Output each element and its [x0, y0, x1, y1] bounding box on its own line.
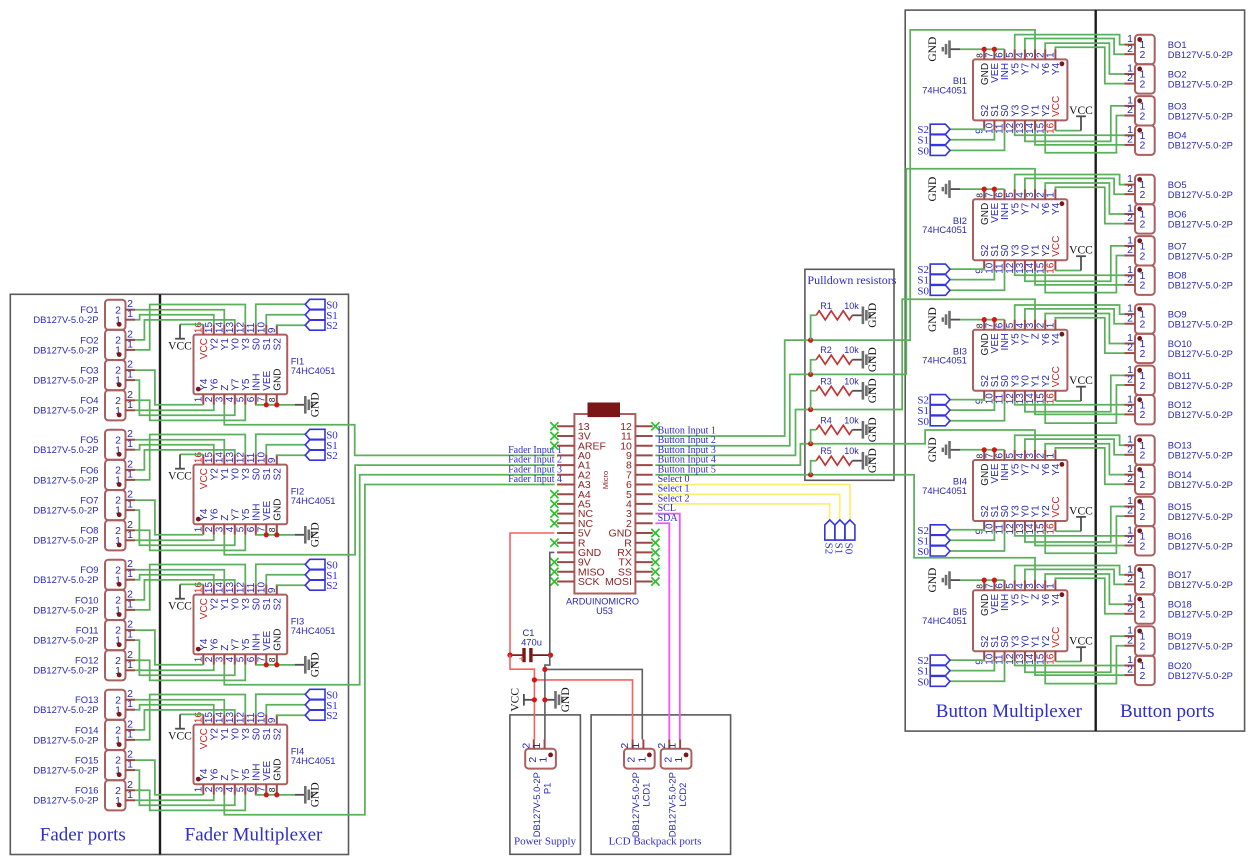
wire FI4 INH/VEE/GND to ground: [256, 794, 295, 796]
svg-text:DB127V-5.0-2P: DB127V-5.0-2P: [33, 505, 98, 516]
wire FI2 INH/VEE/GND to ground: [256, 534, 295, 536]
wire +5V C1 to P1 and VCC: [510, 655, 534, 739]
wire S2 to FI2: [277, 453, 305, 456]
svg-text:Y1: Y1: [220, 338, 231, 351]
ground R1: [852, 303, 879, 328]
svg-text:8: 8: [267, 397, 277, 402]
svg-text:5: 5: [236, 656, 247, 662]
wire BI5 Y7 to BO17.2: [1025, 569, 1124, 584]
svg-text:U53: U53: [596, 606, 613, 616]
no-connect U53 left NC row 9: [550, 510, 558, 518]
wire S2 to FI4: [277, 713, 305, 716]
ground R3: [852, 378, 879, 403]
wire FI1 Z to Fader Input 1: [224, 405, 554, 456]
svg-text:1: 1: [127, 338, 133, 350]
wire BI2 Y3 to BO8.1: [1015, 271, 1124, 276]
svg-text:1: 1: [194, 656, 205, 662]
svg-text:2: 2: [1127, 72, 1133, 84]
node S1 global label (BI2): [917, 275, 950, 287]
svg-text:5: 5: [236, 786, 247, 792]
wire FO8.2 to FI2 Y5: [135, 530, 245, 550]
svg-text:S1: S1: [262, 598, 273, 611]
wire FO1.2 to FI1 Y1: [135, 310, 224, 325]
svg-text:Y2: Y2: [209, 468, 220, 481]
svg-text:1: 1: [127, 728, 133, 740]
wire BI1 Y4 to BO2.2: [1055, 47, 1124, 83]
svg-text:2: 2: [1140, 579, 1146, 591]
svg-text:Y6: Y6: [209, 508, 220, 521]
svg-text:Button Multiplexer: Button Multiplexer: [936, 701, 1083, 722]
wire FO16.1 to FI4 Y6: [135, 795, 214, 801]
svg-text:GND: GND: [867, 417, 879, 442]
svg-text:Y0: Y0: [230, 728, 241, 741]
svg-text:GND: GND: [310, 522, 322, 547]
wire BI1 Y1 to BO4.2: [1035, 131, 1124, 145]
junction FI1 pin8: [274, 402, 279, 407]
svg-text:GND: GND: [272, 499, 283, 521]
node S0 global label (BI2): [917, 285, 950, 297]
svg-text:Z: Z: [220, 645, 231, 651]
wire FO5.2 to FI2 Y1: [135, 440, 224, 455]
wire FO5.1 to FI2 Y2: [135, 445, 214, 455]
svg-text:2: 2: [1127, 403, 1133, 415]
svg-text:VEE: VEE: [262, 760, 273, 780]
svg-text:DB127V-5.0-2P: DB127V-5.0-2P: [33, 704, 98, 715]
svg-text:2: 2: [1140, 511, 1146, 523]
svg-text:10k: 10k: [844, 415, 859, 425]
svg-text:DB127V-5.0-2P: DB127V-5.0-2P: [1168, 670, 1233, 681]
junction R2 / Button Input 2: [808, 372, 813, 377]
svg-text:GND: GND: [927, 437, 939, 462]
wire BI5 Y3 to BO20.1: [1015, 662, 1124, 666]
divider Fader boxes: [159, 294, 161, 854]
ground near P1: [545, 687, 572, 712]
svg-text:2: 2: [1127, 104, 1133, 116]
svg-text:6: 6: [246, 396, 257, 402]
svg-text:DB127V-5.0-2P: DB127V-5.0-2P: [33, 734, 98, 745]
svg-text:8: 8: [267, 527, 277, 532]
svg-text:VEE: VEE: [262, 630, 273, 650]
svg-text:GND: GND: [272, 369, 283, 391]
wire S2 to BI1: [950, 129, 984, 130]
svg-text:DB127V-5.0-2P: DB127V-5.0-2P: [667, 772, 678, 837]
wire S2 to BI3: [950, 400, 984, 401]
svg-text:2: 2: [1127, 312, 1133, 324]
svg-text:2: 2: [1140, 609, 1146, 621]
junction FI3 pin7: [264, 662, 269, 667]
svg-text:74HC4051: 74HC4051: [922, 84, 967, 95]
svg-text:VEE: VEE: [262, 370, 273, 390]
svg-text:9: 9: [267, 457, 278, 463]
svg-text:INH: INH: [251, 634, 262, 651]
svg-text:R4: R4: [820, 415, 832, 425]
wire BI1 Y5 to BO1.1: [1015, 35, 1124, 50]
svg-text:1: 1: [127, 308, 133, 320]
connector BO13: [1124, 434, 1233, 465]
junction FI4 pin7: [264, 792, 269, 797]
svg-text:1: 1: [127, 629, 133, 641]
wire R2 left lead: [811, 360, 817, 375]
wire BI4 Y0 to BO15.1: [1025, 507, 1124, 543]
wire Select 2: [655, 504, 829, 520]
wire FO9.2 to FI3 Y1: [135, 570, 224, 585]
svg-text:1: 1: [531, 743, 543, 749]
svg-text:4: 4: [225, 786, 236, 792]
svg-text:74HC4051: 74HC4051: [922, 615, 967, 626]
multiplexer BI1: [922, 49, 1067, 134]
svg-text:9: 9: [267, 587, 278, 593]
svg-text:Y1: Y1: [220, 598, 231, 611]
connector FO9: [33, 558, 135, 590]
svg-text:8: 8: [267, 657, 277, 662]
wire BI5 VCC pin16: [1055, 661, 1081, 663]
svg-text:S2: S2: [272, 598, 283, 611]
wire BI4 Y7 to BO13.2: [1025, 439, 1124, 455]
wire S1 to BI4: [950, 531, 994, 540]
wire Button Input 1 (U53 to R1 bus): [655, 340, 810, 436]
wire BI4 Y1 to BO16.2: [1035, 531, 1124, 545]
svg-text:7: 7: [257, 526, 268, 532]
svg-text:1: 1: [127, 698, 133, 710]
svg-text:S0: S0: [917, 416, 929, 428]
svg-text:16: 16: [1046, 653, 1057, 665]
junction +5V LCD1 branch: [532, 677, 537, 682]
svg-text:S1: S1: [262, 728, 273, 741]
node S0 global label (center): [843, 520, 855, 555]
wire Button Input 5 (U53 to R5 bus): [655, 474, 810, 476]
svg-text:2: 2: [1140, 189, 1146, 201]
svg-text:DB127V-5.0-2P: DB127V-5.0-2P: [1168, 348, 1233, 359]
svg-text:INH: INH: [251, 764, 262, 781]
wire BI3 Y5 to BO9.1: [1015, 305, 1124, 320]
wire FO11.1 to FI3 Y7: [135, 640, 235, 675]
wire S1 to BI1: [950, 131, 994, 140]
connector LCD1: [619, 740, 655, 838]
wire FO6.1 to FI2 Y3: [135, 435, 245, 480]
node S0 global label (BI4): [917, 546, 950, 558]
wire S2 to FI1: [277, 323, 305, 326]
junction R3 / Button Input 3: [808, 407, 813, 412]
wire BI3 Y1 to BO12.2: [1035, 401, 1124, 414]
svg-text:16: 16: [194, 712, 205, 724]
node S1 global label (BI1): [917, 135, 950, 147]
svg-text:2: 2: [1140, 250, 1146, 262]
connector FO1: [33, 298, 135, 330]
svg-text:Fader Input 4: Fader Input 4: [508, 474, 562, 485]
wire BI1 Y2 to BO3.2: [1045, 116, 1124, 153]
svg-text:DB127V-5.0-2P: DB127V-5.0-2P: [1168, 78, 1233, 89]
svg-text:Y6: Y6: [209, 638, 220, 651]
svg-text:GND: GND: [927, 568, 939, 593]
svg-text:VCC: VCC: [1069, 245, 1093, 257]
svg-text:S2: S2: [326, 320, 338, 332]
wire BI3 GND/VEE/INH to ground: [960, 319, 1004, 321]
ground BI5: [927, 568, 960, 593]
wire Button Input 4 (U53 to R4 bus): [655, 444, 810, 465]
svg-text:INH: INH: [251, 504, 262, 521]
svg-text:SDA: SDA: [658, 513, 679, 524]
wire BI5 Y1 to BO20.2: [1035, 662, 1124, 676]
svg-text:Y0: Y0: [230, 468, 241, 481]
svg-text:6: 6: [246, 526, 257, 532]
wire FO13.2 to FI4 Y1: [135, 700, 224, 715]
svg-text:DB127V-5.0-2P: DB127V-5.0-2P: [1168, 49, 1233, 60]
no-connect U53 left SCK row 16: [550, 577, 558, 585]
wire S2 to BI2: [950, 269, 984, 270]
node S1 global label (FI2): [305, 440, 338, 452]
junction BI1 pin7: [992, 47, 997, 52]
connector FO13: [33, 688, 135, 720]
node S2 global label (BI1): [917, 124, 950, 136]
svg-text:Fader ports: Fader ports: [40, 825, 126, 846]
svg-text:1: 1: [636, 757, 648, 763]
svg-text:S0: S0: [917, 676, 929, 688]
power VCC BI4: [1069, 505, 1093, 531]
no-connect U53 left A4 row 7: [550, 490, 558, 498]
svg-text:2: 2: [1127, 183, 1133, 195]
wire FO3.1 to FI1 Y7: [135, 380, 235, 415]
svg-text:DB127V-5.0-2P: DB127V-5.0-2P: [531, 772, 542, 837]
svg-text:S0: S0: [917, 285, 929, 297]
svg-text:GND: GND: [310, 392, 322, 417]
wire Select 0: [655, 485, 850, 520]
svg-text:DB127V-5.0-2P: DB127V-5.0-2P: [33, 405, 98, 416]
wire BI2 Y2 to BO7.2: [1045, 256, 1124, 293]
ground R4: [852, 417, 879, 442]
svg-text:GND: GND: [310, 782, 322, 807]
svg-text:10k: 10k: [844, 446, 859, 456]
svg-text:Y7: Y7: [230, 638, 241, 651]
connector BO19: [1124, 625, 1233, 656]
svg-text:470u: 470u: [521, 637, 542, 648]
connector BO14: [1124, 463, 1233, 494]
svg-text:VCC: VCC: [168, 600, 192, 612]
ground FI3: [295, 652, 322, 677]
svg-text:2: 2: [204, 786, 215, 792]
connector FO11: [33, 619, 135, 651]
node S0 global label (FI1): [305, 299, 338, 311]
wire BI3 Y7 to BO9.2: [1025, 309, 1124, 324]
no-connect U53 left 13 row 0: [550, 422, 558, 430]
svg-text:MOSI: MOSI: [605, 576, 632, 588]
svg-text:3: 3: [215, 396, 226, 402]
connector BO16: [1124, 524, 1233, 555]
svg-text:5: 5: [236, 526, 247, 532]
node S0 global label (BI5): [917, 676, 950, 688]
wire S0 to BI2: [950, 271, 1005, 291]
svg-text:Y2: Y2: [209, 728, 220, 741]
svg-text:9: 9: [267, 717, 278, 723]
connector BO5: [1124, 173, 1233, 204]
svg-text:2: 2: [1127, 573, 1133, 585]
wire BI5 Y6 to BO18.1: [1045, 574, 1124, 604]
svg-text:VCC: VCC: [168, 730, 192, 742]
svg-text:R5: R5: [820, 446, 832, 456]
svg-text:S2: S2: [326, 450, 338, 462]
svg-text:DB127V-5.0-2P: DB127V-5.0-2P: [33, 314, 98, 325]
junction FI3 pin8: [274, 662, 279, 667]
wire S2 to BI4: [950, 530, 984, 531]
svg-text:LCD Backpack ports: LCD Backpack ports: [609, 836, 702, 848]
svg-text:Y1: Y1: [220, 468, 231, 481]
svg-text:GND: GND: [867, 347, 879, 372]
wire S0 to BI4: [950, 531, 1005, 551]
no-connect U53 right RX row 13: [651, 548, 659, 556]
svg-text:DB127V-5.0-2P: DB127V-5.0-2P: [1168, 250, 1233, 261]
node S2 global label (center): [823, 520, 835, 554]
svg-text:DB127V-5.0-2P: DB127V-5.0-2P: [1168, 579, 1233, 590]
svg-text:GND: GND: [310, 652, 322, 677]
svg-text:Z: Z: [220, 515, 231, 521]
svg-text:S1: S1: [262, 468, 273, 481]
connector BO4: [1124, 124, 1233, 155]
wire S0 to BI5: [950, 662, 1005, 682]
wire R5 left lead: [811, 461, 817, 475]
svg-text:Micro: Micro: [601, 471, 610, 489]
power VCC BI5: [1069, 636, 1093, 662]
node S2 global label (BI5): [917, 655, 950, 667]
connector BO1: [1124, 33, 1233, 64]
svg-text:VCC: VCC: [199, 338, 210, 359]
svg-text:1: 1: [667, 743, 679, 749]
wire BI4 GND/VEE/INH to ground: [960, 449, 1004, 451]
svg-text:2: 2: [1140, 409, 1146, 421]
power VCC near P1: [510, 688, 535, 712]
svg-text:Y5: Y5: [241, 768, 252, 781]
svg-text:74HC4051: 74HC4051: [922, 485, 967, 496]
svg-text:Y0: Y0: [230, 338, 241, 351]
svg-text:DB127V-5.0-2P: DB127V-5.0-2P: [1168, 140, 1233, 151]
svg-text:VCC: VCC: [199, 468, 210, 489]
svg-text:DB127V-5.0-2P: DB127V-5.0-2P: [33, 604, 98, 615]
svg-text:8: 8: [267, 787, 277, 792]
svg-text:VCC: VCC: [168, 340, 192, 352]
svg-text:1: 1: [673, 757, 685, 763]
svg-text:VCC: VCC: [1069, 105, 1093, 117]
svg-text:Y2: Y2: [209, 598, 220, 611]
connector BO8: [1124, 264, 1233, 295]
multiplexer BI2: [922, 189, 1067, 274]
wire S1 to FI3: [266, 575, 305, 585]
svg-text:2: 2: [1140, 670, 1146, 682]
wire S2 to BI5: [950, 660, 984, 661]
svg-text:1: 1: [127, 659, 133, 671]
wire BI3 Y6 to BO10.1: [1045, 314, 1124, 344]
junction GND LCD1 branch: [542, 667, 547, 672]
junction R1 / Button Input 1: [808, 338, 813, 343]
svg-text:6: 6: [246, 786, 257, 792]
svg-text:VCC: VCC: [199, 598, 210, 619]
svg-text:1: 1: [127, 789, 133, 801]
power VCC BI1: [1069, 105, 1093, 131]
connector FO14: [33, 718, 135, 750]
svg-text:4: 4: [225, 396, 236, 402]
junction BI4 pin7: [992, 447, 997, 452]
connector BO18: [1124, 593, 1233, 624]
svg-text:VEE: VEE: [262, 500, 273, 520]
box Power Supply: [510, 715, 581, 854]
node S0 global label (BI1): [917, 145, 950, 157]
svg-text:2: 2: [1127, 505, 1133, 517]
svg-text:10k: 10k: [844, 345, 859, 355]
svg-text:GND: GND: [927, 177, 939, 202]
svg-text:2: 2: [1140, 479, 1146, 491]
node S1 global label (FI3): [305, 570, 338, 582]
wire S2 to FI3: [277, 583, 305, 586]
svg-text:1: 1: [127, 468, 133, 480]
wire S0 to FI1: [256, 304, 305, 324]
wire S1 to BI2: [950, 271, 994, 280]
svg-text:1: 1: [194, 786, 205, 792]
wire SDA: [655, 523, 669, 739]
no-connect U53 left 9V row 14: [550, 558, 558, 566]
svg-text:2: 2: [1127, 342, 1133, 354]
connector BO3: [1124, 94, 1233, 125]
svg-text:7: 7: [257, 396, 268, 402]
wire FI2 Z to Fader Input 2: [224, 465, 554, 555]
junction FI2 pin7: [264, 532, 269, 537]
svg-text:DB127V-5.0-2P: DB127V-5.0-2P: [1168, 218, 1233, 229]
svg-text:LCD1: LCD1: [641, 783, 652, 807]
svg-text:2: 2: [1127, 374, 1133, 386]
no-connect U53 right TX row 14: [651, 558, 659, 566]
wire S1 to BI5: [950, 662, 994, 671]
svg-text:1: 1: [127, 399, 133, 411]
svg-text:S2: S2: [272, 728, 283, 741]
wire BI3 Y4 to BO10.2: [1055, 318, 1124, 353]
no-connect U53 left AREF row 2: [550, 442, 558, 450]
multiplexer FI3: [194, 582, 336, 665]
junction BI2 pin7: [992, 187, 997, 192]
svg-text:1: 1: [194, 396, 205, 402]
svg-text:DB127V-5.0-2P: DB127V-5.0-2P: [33, 574, 98, 585]
svg-text:2: 2: [1127, 443, 1133, 455]
svg-text:2: 2: [1140, 380, 1146, 392]
svg-text:S0: S0: [251, 468, 262, 481]
node S1 global label (center): [833, 520, 845, 554]
svg-text:S0: S0: [843, 543, 855, 555]
connector BO2: [1124, 63, 1233, 94]
svg-text:Pulldown resistors: Pulldown resistors: [807, 273, 896, 287]
wire FO7.1 to FI2 Y7: [135, 510, 235, 545]
connector BO12: [1124, 393, 1233, 424]
wire Button Input 2 (U53 to R2 bus): [655, 374, 810, 445]
wire BI4 Y3 to BO16.1: [1015, 531, 1124, 536]
node S2 global label (BI3): [917, 395, 950, 407]
svg-text:2: 2: [1140, 319, 1146, 331]
power VCC FI3: [168, 584, 192, 612]
wire Button Input 3 bus to BI3 Z: [811, 299, 1035, 409]
wire BI2 Y0 to BO7.1: [1025, 246, 1124, 281]
svg-text:VCC: VCC: [1051, 96, 1062, 117]
svg-text:R3: R3: [820, 376, 832, 386]
svg-text:S2: S2: [272, 468, 283, 481]
junction BI3 pin7: [992, 317, 997, 322]
wire GND C1 to P1: [545, 655, 550, 739]
wire FO8.1 to FI2 Y6: [135, 535, 214, 541]
connector BO20: [1124, 654, 1233, 685]
connector BO15: [1124, 495, 1233, 526]
ground FI4: [295, 782, 322, 807]
wire BI3 Y3 to BO12.1: [1015, 401, 1124, 405]
ground R2: [852, 347, 879, 372]
svg-text:8: 8: [974, 323, 984, 328]
svg-text:S2: S2: [326, 710, 338, 722]
ground FI1: [295, 392, 322, 417]
svg-text:3: 3: [215, 526, 226, 532]
box Button Multiplexer: [905, 10, 1095, 731]
svg-text:1: 1: [1046, 192, 1057, 198]
